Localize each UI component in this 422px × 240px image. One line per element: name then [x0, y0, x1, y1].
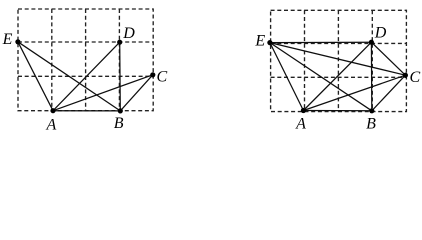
edge C-E: [270, 43, 406, 76]
right grid: [271, 10, 407, 111]
left graph edges: [18, 42, 153, 111]
edge B-C: [120, 75, 153, 111]
svg-text:C: C: [410, 69, 421, 86]
edge B-E: [270, 43, 372, 111]
edge A-C: [53, 75, 153, 111]
edge A-B: [303, 110, 371, 112]
vertex E (left): [15, 39, 20, 44]
vertex A (left): [50, 108, 55, 113]
vertex C (left): [150, 72, 155, 77]
edge A-C: [303, 75, 405, 110]
edge B-D: [370, 42, 372, 111]
edge A-B: [53, 110, 120, 112]
edge B-C: [372, 75, 406, 111]
edge A-D: [53, 42, 120, 111]
vertex A (right): [301, 108, 306, 113]
edge A-D: [303, 42, 371, 110]
svg-text:E: E: [254, 32, 265, 49]
svg-text:D: D: [374, 25, 387, 42]
svg-text:A: A: [46, 117, 57, 134]
vertex B (right): [369, 108, 374, 113]
vertex D (left): [117, 40, 122, 45]
right graph edges: [270, 42, 406, 111]
svg-text:B: B: [366, 115, 376, 132]
svg-text:C: C: [157, 69, 168, 86]
vertex D (right): [369, 40, 374, 45]
vertex C (right): [403, 73, 408, 78]
edge B-E: [18, 42, 120, 111]
svg-text:B: B: [114, 115, 124, 132]
vertex E (right): [267, 40, 272, 45]
svg-text:A: A: [295, 115, 306, 132]
edge C-D: [371, 42, 405, 75]
edge B-D: [119, 42, 122, 111]
svg-text:D: D: [122, 25, 135, 42]
edge D-E: [270, 41, 372, 43]
left grid: [18, 9, 153, 111]
edge A-E: [18, 42, 53, 111]
vertex B (left): [118, 108, 123, 113]
edge A-E: [270, 43, 304, 111]
svg-text:E: E: [2, 31, 13, 48]
